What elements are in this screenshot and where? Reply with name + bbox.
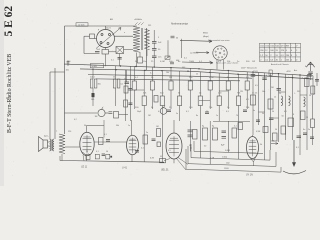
capacitor C27	[170, 62, 174, 64]
wire to R4	[115, 66, 117, 79]
svg-text:c: c	[288, 77, 289, 79]
capacitor C26	[315, 80, 319, 82]
svg-text:UEL 51: UEL 51	[161, 170, 169, 172]
wire right column x312	[312, 95, 314, 145]
wire right column x313	[312, 76, 314, 95]
svg-text:30: 30	[272, 111, 274, 113]
wire drop x228	[227, 71, 229, 81]
field coil L5 (zigzag)	[59, 134, 65, 154]
wire supply rail B (sloped)	[80, 69, 313, 79]
wire R18 down	[238, 106, 240, 122]
arrow to tuning indicator (middle)	[196, 52, 209, 54]
wire L5 bottom	[61, 154, 63, 161]
svg-text:1n: 1n	[253, 110, 255, 112]
capacitor C28	[106, 140, 110, 142]
svg-text:30k: 30k	[98, 84, 101, 86]
svg-text:5k: 5k	[260, 144, 262, 146]
svg-text:2k: 2k	[196, 74, 198, 76]
wire cap link 1	[153, 43, 155, 48]
svg-text:U 41: U 41	[122, 167, 128, 169]
resistor R10	[160, 96, 164, 106]
svg-text:10k: 10k	[166, 72, 169, 74]
wire drop x238	[238, 74, 240, 96]
wire run 4 (150)	[186, 149, 281, 172]
junction blob	[110, 156, 112, 158]
wire long drop x190	[189, 121, 191, 151]
wire D1 down to rail	[119, 54, 121, 67]
wire right column x307	[306, 75, 308, 150]
tube V4 (UEL51)	[166, 133, 182, 159]
svg-text:Ant.: Ant.	[294, 69, 298, 72]
potentiometer P2 (tone)	[160, 108, 167, 115]
resistor R44	[238, 123, 243, 130]
svg-text:500Ω: 500Ω	[91, 66, 97, 68]
capacitor C5	[125, 82, 130, 84]
hatch above coil	[135, 22, 144, 25]
assorted tiny annotation labels	[44, 18, 311, 158]
svg-text:d: d	[302, 78, 303, 80]
wire V4 cathode	[173, 159, 175, 163]
capacitor C30	[128, 89, 132, 91]
svg-text:+250V: +250V	[252, 71, 259, 73]
voltage table	[260, 43, 301, 61]
wire tie right 4	[271, 117, 279, 119]
svg-text:0,3: 0,3	[226, 111, 229, 113]
svg-text:8n: 8n	[196, 115, 198, 117]
wire link top	[146, 28, 148, 30]
resistor R9	[150, 81, 154, 90]
wire antenna to rail	[310, 74, 312, 80]
wire secondary lead	[146, 28, 148, 70]
wire tie right 2	[279, 91, 286, 93]
resistor R8	[142, 96, 146, 106]
svg-text:220: 220	[68, 131, 71, 133]
resistor R23	[305, 78, 310, 87]
resistor R46	[154, 96, 158, 103]
svg-text:1M: 1M	[148, 115, 151, 117]
svg-text:25: 25	[306, 117, 308, 119]
resistor R43	[193, 130, 198, 140]
wire diagonals V4 to runs	[164, 158, 188, 171]
svg-text:1M: 1M	[156, 126, 159, 128]
wire arrow column	[181, 39, 183, 58]
wire R9 down	[151, 90, 153, 109]
wire V2 anode (up then right)	[87, 126, 105, 133]
capacitor C16	[222, 137, 227, 139]
wire socket lead 2	[223, 60, 225, 70]
svg-text:g: g	[98, 29, 99, 31]
wire R2 down to rail	[105, 54, 107, 66]
paper texture speckle (decorative)	[5, 5, 312, 184]
wire V3 cathode	[131, 155, 133, 162]
svg-text:≈460kHz: ≈460kHz	[134, 19, 142, 21]
coil L3	[289, 96, 291, 106]
arrow output (right of V5)	[271, 143, 278, 145]
svg-text:Spann. gem. geg. Chassis: Spann. gem. geg. Chassis	[216, 63, 238, 65]
resistor R35	[213, 128, 218, 140]
svg-text:0,2: 0,2	[74, 119, 77, 121]
wire V5 anode	[252, 135, 254, 137]
wire lead 1 to rail	[50, 71, 65, 73]
wire V2 to V3	[94, 141, 126, 143]
svg-text:50: 50	[206, 111, 208, 113]
svg-text:0,5M: 0,5M	[160, 61, 165, 63]
wire tie y90	[134, 89, 144, 91]
IF transformer L1 secondary	[144, 29, 149, 50]
svg-text:0,1: 0,1	[104, 134, 107, 136]
svg-text:1n: 1n	[128, 125, 130, 127]
capacitor C25	[102, 154, 105, 156]
arrow to tuning indicator (lower)	[182, 62, 213, 64]
input jack symbol	[67, 61, 70, 67]
wire tie right 3	[300, 94, 307, 96]
capacitor C6	[109, 112, 113, 114]
wire tie y100	[199, 100, 210, 102]
capacitor C17	[167, 110, 171, 112]
wire R16 down	[218, 106, 220, 122]
resistor R38	[273, 133, 278, 141]
capacitor C15	[222, 131, 227, 133]
resistor R39	[99, 138, 104, 145]
svg-text:zur EM11: zur EM11	[190, 53, 199, 55]
wire supply rail A (sloped)	[64, 64, 313, 76]
diode detector crossed box D1	[116, 47, 124, 54]
wire R20 up	[139, 52, 141, 57]
resistor R32	[143, 135, 148, 144]
wire rail to coil	[105, 25, 137, 27]
svg-text:2n: 2n	[308, 129, 310, 131]
svg-text:50: 50	[192, 61, 194, 63]
svg-text:1n: 1n	[216, 115, 218, 117]
wire drop x152	[151, 67, 153, 81]
wire R2 to D1	[109, 51, 117, 53]
svg-text:0,2: 0,2	[158, 111, 161, 113]
wire cap stack top	[153, 30, 155, 42]
capacitor C9	[269, 118, 274, 120]
wire long drop x210	[209, 121, 211, 164]
capacitor C32	[118, 58, 122, 60]
svg-text:50k: 50k	[116, 125, 119, 127]
resistor R13	[188, 81, 192, 90]
wire drop x247	[246, 72, 248, 81]
capacitor C18	[205, 112, 209, 114]
tube V5 (UY1N)	[247, 137, 259, 159]
resistor R29	[86, 154, 90, 159]
tube socket diagram (viewed from below)	[213, 46, 227, 60]
svg-text:1W: 1W	[252, 61, 255, 63]
wire speaker to T2 (2)	[48, 145, 50, 147]
capacitor C1	[95, 52, 100, 54]
svg-text:0,3A: 0,3A	[210, 157, 215, 160]
wire R15 down	[209, 90, 211, 109]
wire R11 down	[170, 90, 172, 109]
resistor R19	[245, 81, 249, 90]
wire to volume pot	[65, 112, 98, 114]
wire drop x171	[170, 68, 172, 81]
resistor R37	[281, 126, 286, 134]
svg-text:dyn.L.: dyn.L.	[44, 136, 50, 138]
svg-text:1kΩ: 1kΩ	[226, 163, 230, 165]
input block box on rail	[90, 64, 103, 68]
svg-text:10n: 10n	[262, 91, 265, 93]
wire R14 down	[199, 106, 201, 122]
wire right column x300	[299, 75, 301, 155]
wire top rail left	[65, 25, 106, 27]
svg-text:400: 400	[182, 67, 185, 69]
svg-text:30: 30	[84, 125, 86, 127]
resistor R40 (on rail end)	[160, 159, 166, 163]
resistor R2	[102, 50, 109, 55]
svg-text:5n: 5n	[124, 79, 126, 81]
wire link bottom	[146, 50, 148, 56]
svg-text:25: 25	[86, 151, 88, 153]
svg-text:Abstimmanzeige: Abstimmanzeige	[171, 23, 189, 26]
svg-text:1121: 1121	[106, 28, 111, 30]
wire arrow feed	[167, 40, 169, 58]
trimmer with diagonal	[165, 56, 170, 59]
capacitor C12	[152, 139, 156, 141]
resistor R25	[288, 118, 294, 127]
resistor R45	[157, 142, 161, 147]
wire V5 cathode fan	[250, 157, 256, 166]
tube V1 (UZ11) round envelope	[95, 26, 134, 50]
resistor R24	[311, 86, 315, 94]
fuse Si1	[269, 70, 272, 76]
svg-text:4: 4	[285, 134, 286, 136]
wire long drop x228	[227, 121, 229, 152]
tube V3 (U41)	[127, 135, 139, 155]
svg-text:1M: 1M	[95, 116, 98, 118]
table cell values	[260, 46, 298, 62]
svg-text:5: 5	[158, 37, 159, 39]
capacitor C10	[297, 136, 302, 138]
wire right column x278	[278, 74, 280, 142]
svg-text:ZF2: ZF2	[297, 91, 300, 93]
capacitor C14	[188, 135, 193, 137]
wire R1 down	[83, 36, 85, 53]
svg-text:2x0,1: 2x0,1	[90, 77, 95, 79]
wire drop x179	[179, 71, 181, 96]
wire speaker to T2	[48, 141, 50, 143]
wire long drop x200	[199, 121, 201, 158]
coil L2	[281, 96, 283, 106]
svg-text:0,1: 0,1	[234, 126, 237, 128]
resistor R34	[203, 128, 208, 140]
svg-text:0,1: 0,1	[284, 111, 287, 113]
capacitor C23	[303, 133, 307, 135]
wire tie above V5 row	[213, 120, 250, 122]
resistor pair R3a/R3b	[90, 79, 97, 88]
capacitor C11	[135, 151, 139, 153]
wire cap stack bottom	[153, 58, 155, 68]
svg-text:1k: 1k	[274, 97, 276, 99]
wire V3 anode	[131, 120, 133, 135]
wire drop x219	[218, 73, 220, 96]
resistor R26	[301, 111, 306, 120]
resistor R36	[232, 128, 237, 138]
capacitor C2	[152, 42, 157, 44]
capacitor C19	[243, 110, 247, 112]
coil L4	[304, 97, 306, 107]
wire R10 down	[161, 106, 163, 122]
wire to C5	[126, 70, 128, 82]
wire right column x258	[258, 73, 260, 126]
wire socket lead 1	[216, 60, 218, 69]
wire rail left end up	[59, 156, 61, 161]
svg-text:0,5: 0,5	[255, 85, 258, 87]
capacitor C20	[251, 75, 256, 77]
wire left boundary vertical	[64, 26, 66, 134]
svg-text:+85V: +85V	[286, 71, 291, 73]
wire drop x104	[103, 120, 105, 138]
svg-text:50: 50	[106, 151, 108, 153]
svg-text:ZF1: ZF1	[148, 25, 151, 27]
capacitor C31	[171, 36, 175, 38]
capacitor C21	[262, 78, 267, 80]
wire R17 down	[227, 90, 229, 109]
svg-text:1W: 1W	[169, 77, 172, 79]
wire drop x144	[143, 70, 145, 96]
wire coil bottom to rail	[136, 53, 138, 67]
svg-text:1,5kΩ: 1,5kΩ	[222, 157, 228, 159]
capacitor C3	[152, 49, 157, 51]
svg-text:8: 8	[293, 114, 294, 116]
wire cap link 2	[153, 50, 155, 56]
capacitor C24	[310, 137, 314, 139]
wire lower left	[84, 53, 95, 55]
wire T2 primary lead 1	[49, 72, 51, 139]
wire supply rail D (sloped, short)	[96, 79, 240, 81]
resistor R30	[95, 154, 99, 159]
wire right column x253	[252, 72, 254, 135]
wire R4 down	[115, 88, 117, 106]
resistor R12	[178, 96, 182, 106]
wire column x125	[125, 70, 127, 121]
wire long drop x144	[143, 121, 145, 162]
switch block S1	[76, 23, 88, 26]
svg-text:b: b	[266, 75, 267, 77]
svg-text:5,6kΩ: 5,6kΩ	[225, 150, 231, 152]
wire right column x264	[264, 73, 266, 160]
wire tie right 1	[259, 111, 265, 113]
resistor R27	[311, 119, 315, 128]
resistor R7	[132, 81, 136, 90]
resistor R28	[263, 127, 268, 133]
wire column x130	[129, 66, 131, 121]
svg-text:0,5M: 0,5M	[209, 77, 214, 79]
wire T2 primary lead 2	[54, 68, 56, 139]
antenna lead with arrow (bottom right)	[293, 140, 295, 163]
resistor R42	[124, 86, 128, 93]
wire drop x210	[209, 70, 211, 82]
resistor R17	[226, 81, 230, 90]
wire V2 lead fan	[83, 152, 89, 161]
wire R3 down	[92, 88, 94, 106]
svg-text:Ansicht auf Chassis: Ansicht auf Chassis	[271, 63, 289, 66]
svg-text:4n: 4n	[303, 129, 305, 131]
wire to R1	[84, 35, 90, 37]
svg-text:1k: 1k	[190, 148, 192, 150]
capacitor C8	[307, 75, 312, 77]
wire V2 cathode	[86, 156, 88, 161]
svg-text:(Auge): (Auge)	[203, 35, 209, 38]
svg-text:0,1: 0,1	[150, 73, 153, 75]
resistor R5	[114, 112, 119, 119]
potentiometer P1 (volume)	[98, 109, 105, 116]
tube V2 (U12)	[80, 132, 94, 155]
junction dots on rails	[92, 65, 307, 79]
svg-text:10n: 10n	[158, 57, 161, 59]
resistor R21	[251, 95, 256, 105]
loudspeaker LS1	[39, 137, 48, 152]
ground / counterpoise arc	[283, 171, 306, 174]
arrow to tuning indicator (upper)	[180, 40, 212, 42]
electrolytic blob on column x93	[92, 93, 95, 97]
wire run 2 (1,5k)	[191, 144, 270, 160]
capacitor C33 (antenna)	[308, 72, 313, 74]
wire run 1 (5,6k)	[194, 141, 263, 153]
svg-text:EM: EM	[286, 46, 289, 48]
wire long drop x238	[238, 121, 240, 159]
capacitor C13	[188, 130, 193, 132]
svg-text:10: 10	[275, 129, 277, 131]
resistor R20 (above rail)	[138, 57, 143, 63]
wire drop x190	[189, 68, 191, 81]
wire drop x200	[199, 72, 201, 96]
svg-text:220V~ Netzanschl.: 220V~ Netzanschl.	[241, 66, 257, 69]
resistor R15	[208, 81, 212, 90]
svg-text:6,3V: 6,3V	[150, 158, 155, 160]
wire drop x162	[161, 71, 163, 96]
wire R7 down	[133, 90, 135, 109]
antenna symbol (top right)	[306, 62, 314, 71]
core lines of transformer L1	[140, 28, 142, 50]
capacitor C22	[256, 120, 260, 122]
wire pot to C6	[105, 112, 108, 114]
svg-text:AM: AM	[110, 18, 113, 21]
wire bottom rail (heater, sloped)	[60, 161, 164, 163]
svg-text:0,1: 0,1	[96, 151, 99, 153]
wire supply rail C (sloped)	[88, 75, 252, 79]
wire R13 down	[189, 90, 191, 109]
svg-text:5 E 62: 5 E 62	[3, 6, 15, 37]
resistor R18	[237, 96, 241, 106]
svg-text:2M: 2M	[271, 87, 274, 89]
svg-text:50: 50	[309, 95, 311, 97]
svg-text:5k: 5k	[262, 113, 264, 115]
wire to R3	[92, 69, 94, 79]
resistor R11	[169, 81, 173, 90]
tuning arrow through tube V1	[96, 28, 121, 49]
svg-text:1W: 1W	[240, 91, 243, 93]
svg-text:EM11: EM11	[203, 33, 208, 35]
wire R5 out	[119, 114, 129, 116]
wire long drop x162	[161, 121, 163, 162]
svg-text:0,1: 0,1	[246, 99, 249, 101]
component value labels (center band)	[135, 61, 255, 109]
resistor R14	[198, 96, 202, 106]
wire R8 down	[143, 106, 145, 122]
capacitor C7	[277, 89, 282, 91]
wire R12 down	[179, 106, 181, 122]
svg-text:150Ω: 150Ω	[224, 168, 229, 170]
wire coil top lead	[136, 25, 138, 28]
resistor R22	[268, 99, 273, 109]
output transformer T2 windings	[50, 139, 55, 151]
capacitor C4	[152, 56, 157, 58]
resistor R1	[90, 34, 95, 39]
resistor pair R4a/R4b	[113, 79, 120, 88]
